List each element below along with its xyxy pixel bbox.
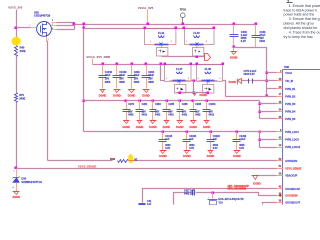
pin 52 OVPGDRV (277, 160, 283, 162)
pin 51 VSYS_SENSE (277, 168, 283, 170)
pin 46 VIO_IN (277, 80, 283, 82)
resistor R70 (15, 93, 18, 103)
wire junction to D30 (16, 169, 18, 178)
svg-text:DGND: DGND (136, 125, 144, 129)
svg-text:VBACKUP: VBACKUP (285, 175, 297, 178)
wire VIO_IN feed (266, 80, 269, 83)
svg-text:FL48: FL48 (205, 67, 212, 71)
svg-text:DGND: DGND (183, 154, 191, 158)
svg-text:PVIN_B3: PVIN_B3 (285, 103, 296, 106)
svg-text:0805: 0805 (119, 81, 125, 84)
svg-text:DGND: DGND (233, 154, 241, 158)
pin 36 VBACKUP (277, 175, 283, 177)
node VSYS_SENSE junction (15, 167, 18, 170)
svg-text:0603 6.3V: 0603 6.3V (244, 73, 255, 76)
svg-text:DGND: DGND (200, 93, 208, 97)
resistor R39 (113, 159, 129, 164)
svg-text:PVIN_LDO12: PVIN_LDO12 (285, 146, 301, 149)
wire bus1 down-feed to FL47 pin1 (160, 63, 163, 66)
wire FL47 pin2 down (179, 83, 181, 85)
svg-text:FL47: FL47 (176, 67, 183, 71)
svg-text:0805: 0805 (105, 81, 111, 84)
svg-text:6.3V: 6.3V (165, 147, 170, 150)
svg-text:6.3V: 6.3V (189, 147, 194, 150)
wire FL41 pin2 down (161, 46, 163, 48)
wire ground link row (177, 92, 209, 94)
svg-text:DGND: DGND (189, 125, 197, 129)
svg-text:VCCA_3V5_DDR: VCCA_3V5_DDR (86, 55, 111, 59)
pin 12 PVIN_LDO12 (277, 147, 283, 149)
svg-text:C417 1uF: C417 1uF (184, 189, 195, 192)
ground DGND C279 (124, 121, 129, 124)
ground DGND C285 (165, 121, 169, 124)
wire bus1 y24.2 (75, 24, 256, 26)
svg-text:PVIN_LDO3: PVIN_LDO3 (285, 138, 299, 141)
svg-text:6.3V: 6.3V (213, 147, 218, 150)
svg-text:TP30: TP30 (180, 7, 187, 11)
svg-text:C279: C279 (128, 103, 134, 106)
svg-text:DGND: DGND (99, 94, 107, 98)
pin 4 VCCA (277, 72, 283, 74)
wire VCCA_3V5 stub (147, 10, 149, 25)
svg-text:FL41: FL41 (158, 31, 165, 35)
capacitor C417 series (192, 190, 194, 196)
pin 39 OSC32KIN (277, 195, 283, 197)
svg-text:240E: 240E (19, 96, 25, 100)
svg-text:1uF: 1uF (189, 138, 194, 141)
svg-text:0402: 0402 (168, 113, 174, 116)
off-page connector arrow (205, 54, 211, 61)
svg-text:1uF: 1uF (147, 203, 152, 205)
svg-text:VIO_IN: VIO_IN (285, 80, 293, 83)
wire FL47 pin3 to FL48 pin1 (191, 80, 197, 82)
svg-text:1uF: 1uF (165, 138, 170, 141)
svg-text:DGND: DGND (12, 195, 20, 199)
capacitor C288 (192, 100, 195, 103)
svg-text:0402: 0402 (128, 113, 134, 116)
ground DGND below D30 (14, 192, 19, 195)
svg-text:10uF: 10uF (105, 74, 111, 77)
capacitor C285 (166, 100, 169, 103)
capacitor C283 (152, 100, 155, 103)
svg-text:240E: 240E (20, 49, 26, 53)
ground DGND C293 (129, 90, 135, 93)
ground DGND C1292 (235, 151, 240, 154)
svg-text:Y10: Y10 (218, 201, 223, 204)
svg-text:dnd planes should be: dnd planes should be (284, 26, 318, 30)
wire OSC32KCAP W1 (143, 189, 277, 203)
wire drain bundle vertical (74, 23, 76, 30)
svg-text:PVIN_LDO4: PVIN_LDO4 (285, 131, 299, 134)
svg-text:VSYS_3V5: VSYS_3V5 (8, 5, 22, 9)
wire R70 to junction (16, 103, 18, 169)
wire VCCA feed (266, 72, 269, 75)
svg-text:DGND: DGND (203, 125, 211, 129)
wire A: source rail to OVPGDRV (48, 160, 111, 162)
wire VSYS_3V5 rail (16, 10, 18, 45)
esd box below FL48 (203, 85, 214, 94)
wire source down (46, 37, 48, 41)
svg-text:R39: R39 (110, 157, 115, 161)
svg-text:C288: C288 (195, 103, 201, 106)
zener diode D30 (13, 178, 20, 183)
svg-text:C285: C285 (168, 103, 174, 106)
svg-text:OVPGDRV: OVPGDRV (285, 160, 298, 163)
svg-text:10uF: 10uF (148, 74, 154, 77)
svg-text:DGND: DGND (149, 125, 157, 129)
svg-text:DGND: DGND (128, 94, 136, 98)
wire VSYS_SENSE (wire B) (17, 168, 277, 170)
svg-text:0805: 0805 (148, 81, 154, 84)
svg-text:1. Ensure that powe: 1. Ensure that powe (289, 4, 320, 8)
crystal Y10 (212, 192, 215, 195)
ground DGND C1040 (101, 90, 105, 93)
resistor R40 (15, 46, 18, 57)
svg-text:HFA_OSC32KIN: HFA_OSC32KIN (228, 188, 247, 191)
component box below FL40 (193, 48, 204, 57)
yellow highlight on R40 (12, 37, 21, 46)
pin 8 PVIN_LDO4 (277, 131, 283, 133)
ground DGND C1001 (205, 121, 209, 124)
pin 26 PVIN_B1 (277, 88, 283, 90)
svg-text:0402: 0402 (195, 113, 201, 116)
svg-text:0402: 0402 (209, 113, 215, 116)
svg-text:FL40: FL40 (193, 31, 200, 35)
svg-text:OSC32KCAP: OSC32KCAP (285, 188, 300, 191)
ground DGND at VBACKUP (253, 176, 258, 180)
svg-text:DGND: DGND (176, 125, 184, 129)
wire between R40 and R70 (16, 57, 18, 93)
wire FL40 box output (196, 56, 198, 57)
svg-text:try to keep the trac: try to keep the trac (284, 35, 314, 39)
svg-text:planes. All the grou: planes. All the grou (284, 22, 314, 26)
wire FL40 pin2 down (196, 46, 198, 48)
svg-text:DGND: DGND (253, 181, 261, 185)
wire VBACKUP (256, 175, 277, 177)
svg-text:CSD16407Q5: CSD16407Q5 (34, 14, 51, 18)
wire esd47 to gnd wire (179, 93, 181, 94)
svg-text:10uF: 10uF (119, 74, 125, 77)
svg-text:DGND: DGND (207, 154, 215, 158)
capacitor C343 (255, 23, 258, 26)
ground DGND C288 (191, 121, 196, 124)
svg-text:DGND: DGND (230, 55, 238, 59)
capacitor C1015 (162, 131, 165, 134)
capacitor C1024 (186, 131, 189, 134)
ground DGND C281 (138, 121, 142, 124)
capacitor C1040 (102, 63, 105, 66)
svg-text:VCCA: VCCA (285, 72, 292, 75)
wire D30 anode to DGND (16, 183, 18, 192)
wire FL48 pin2 down (207, 83, 209, 85)
svg-text:DGND: DGND (122, 125, 130, 129)
wire center tap to DGND (193, 81, 195, 93)
svg-text:4. Trace from the ou: 4. Trace from the ou (289, 31, 320, 35)
svg-text:10uF: 10uF (134, 74, 140, 77)
wire OVPGDRV (wire A cont.) (111, 160, 277, 162)
svg-text:C286: C286 (182, 103, 188, 106)
wire bus row3 (84, 131, 277, 133)
svg-text:VCCA_3V5: VCCA_3V5 (138, 6, 154, 10)
pin 35 PVIN_B5 (277, 118, 283, 120)
svg-text:0402: 0402 (142, 113, 148, 116)
component box below FL41 (157, 48, 168, 57)
svg-text:DGND: DGND (113, 94, 121, 98)
svg-text:OSC32KIN: OSC32KIN (285, 195, 297, 198)
svg-text:PVIN_B5: PVIN_B5 (285, 118, 296, 121)
wire bus2 y28.8 (83, 25, 85, 132)
pin 38 OSC32KOUT (277, 202, 283, 204)
red marker at OSC32KIN pin (279, 194, 281, 196)
pin 42 OSC32KCAP (277, 188, 283, 190)
svg-text:PVIN_B1: PVIN_B1 (285, 88, 296, 91)
svg-text:0E: 0E (134, 158, 137, 161)
ground DGND C1026 (209, 151, 213, 154)
svg-text:PVIN_B2: PVIN_B2 (285, 95, 296, 98)
capacitor C1001 (206, 100, 209, 103)
svg-text:2.2uF: 2.2uF (239, 138, 246, 141)
svg-text:DGND: DGND (229, 80, 237, 84)
ground DGND below C341 (233, 48, 235, 52)
filter FL47 (165, 65, 192, 82)
wire PVIN_LDO column (259, 131, 262, 134)
ground DGND C294 (144, 90, 149, 93)
pin 45 PVIN_B3 (277, 103, 283, 105)
esd box below FL47 (175, 85, 186, 94)
svg-text:1uF: 1uF (213, 138, 218, 141)
capacitor C294 (145, 63, 148, 66)
capacitor C1026 (210, 131, 213, 134)
capacitor C286 (179, 100, 182, 103)
svg-text:DGND: DGND (163, 125, 171, 129)
wire OSC32KOUT (263, 203, 277, 205)
svg-text:C281: C281 (142, 103, 148, 106)
pin 34 PVIN_B4 (277, 111, 283, 113)
svg-text:6.2V: 6.2V (241, 40, 246, 43)
wire PVIN_B1 feed (267, 88, 277, 90)
pin 17 PVIN_B2 (277, 96, 283, 98)
filter FL40 (185, 29, 215, 45)
filter FL41 (145, 29, 176, 45)
svg-text:power balls and the: power balls and the (284, 13, 315, 17)
wire DDR label stub (92, 59, 94, 65)
capacitor C293 (131, 63, 134, 66)
svg-text:3. Ensure that the g: 3. Ensure that the g (289, 17, 320, 21)
ground DGND C1015 (161, 151, 166, 154)
svg-text:DGND: DGND (142, 94, 150, 98)
svg-text:0402: 0402 (182, 113, 188, 116)
svg-text:0402: 0402 (155, 113, 161, 116)
capacitor C279 (125, 100, 128, 103)
svg-text:VSYS_SENSE: VSYS_SENSE (78, 164, 97, 168)
capacitor C1292 (236, 131, 239, 134)
svg-text:0805: 0805 (134, 81, 140, 84)
ground DGND C1024 (185, 151, 190, 154)
filter FL48 (197, 65, 223, 82)
wire bus row2 (83, 100, 86, 103)
svg-text:U38: U38 (284, 65, 289, 69)
svg-text:SZMMSZ4V3T1G: SZMMSZ4V3T1G (21, 180, 42, 184)
wire cap bottoms to feed column (234, 48, 267, 97)
ground DGND C1049 (115, 90, 120, 93)
svg-text:0402: 0402 (259, 40, 265, 43)
ground DGND C283 (151, 121, 156, 124)
wire PVIN_B3/B4/B5 column (259, 101, 261, 119)
svg-text:trace to BGA power b: trace to BGA power b (284, 8, 318, 12)
capacitor C416 bottom left (139, 203, 146, 205)
wire gate from rail (15, 27, 18, 30)
wire FL41 box output (161, 56, 163, 57)
capacitor C1049 (116, 63, 119, 66)
capacitor C281 (139, 100, 142, 103)
ground DGND C286 (178, 121, 183, 124)
svg-text:VSYS_SENSE: VSYS_SENSE (285, 167, 301, 170)
svg-text:DGND: DGND (159, 154, 167, 158)
wire OSC32KIN W2 (174, 193, 192, 205)
capacitor C340 (233, 23, 236, 26)
svg-text:C1001: C1001 (209, 103, 217, 106)
svg-text:C283: C283 (155, 103, 161, 106)
svg-text:OSC32KOUT: OSC32KOUT (285, 202, 300, 205)
pin 43 PVIN_LDO3 (277, 139, 283, 141)
svg-text:PVIN_B4: PVIN_B4 (285, 110, 296, 113)
svg-text:6.3V: 6.3V (239, 147, 244, 150)
wire drain pins right of U30 (52, 22, 57, 24)
wire bus DDR to FL47/48 (161, 64, 223, 66)
wire PVIN_B2 long feed (266, 95, 269, 98)
svg-text:0402 10V: 0402 10V (184, 193, 194, 196)
ground DGND between ESD boxes (193, 93, 197, 96)
